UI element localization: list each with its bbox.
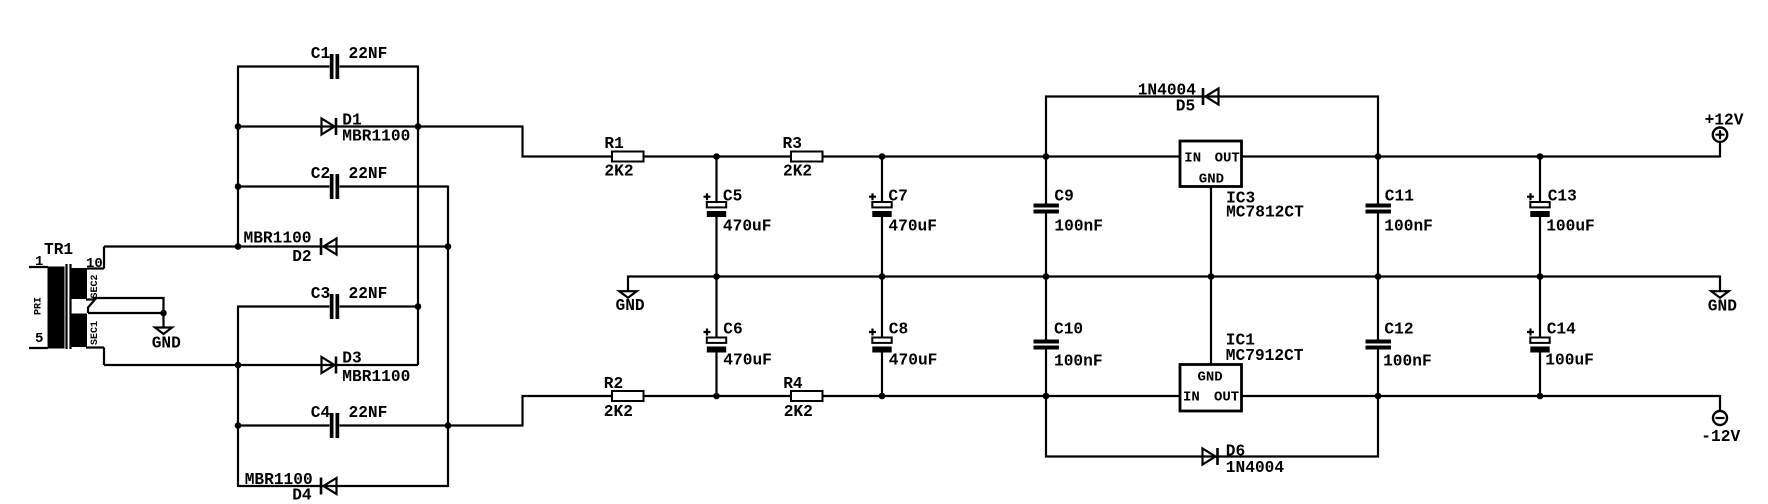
- ground symbol at transformer: [155, 328, 172, 335]
- svg-text:1: 1: [35, 254, 43, 270]
- junction C6 bottom: [713, 393, 720, 400]
- wire TR1 pin5 lead: [29, 347, 48, 349]
- junction C9 top: [1043, 153, 1050, 160]
- wire D5 right drop: [1377, 96, 1379, 157]
- svg-text:470uF: 470uF: [723, 352, 772, 370]
- wire GND rail: [628, 275, 1720, 277]
- junction C11 top: [1375, 153, 1382, 160]
- svg-text:R1: R1: [604, 135, 624, 153]
- svg-text:OUT: OUT: [1214, 390, 1239, 406]
- junction C4 left: [235, 422, 242, 429]
- wire D3 row: [104, 364, 418, 366]
- junction D1 left: [235, 123, 242, 130]
- svg-text:C3: C3: [311, 285, 330, 303]
- svg-text:MBR1100: MBR1100: [342, 368, 410, 386]
- wire transformer GND stub: [162, 313, 164, 328]
- wire +12V stub: [1719, 142, 1721, 158]
- svg-text:GND: GND: [1708, 298, 1737, 316]
- capacitor C1: [330, 54, 339, 79]
- svg-text:GND: GND: [616, 297, 645, 315]
- capacitor C9: [1034, 204, 1059, 214]
- diode D3: [322, 357, 337, 374]
- wire IC1 GND pin: [1210, 277, 1212, 365]
- wire C7 leads: [881, 157, 883, 277]
- svg-text:GND: GND: [152, 335, 181, 353]
- wire right GND stub: [1719, 276, 1721, 292]
- svg-text:C4: C4: [311, 404, 331, 422]
- wire bottom rail right: [1242, 395, 1721, 397]
- svg-text:100nF: 100nF: [1384, 218, 1433, 236]
- diode D1: [322, 118, 337, 135]
- wire D5 bypass row: [1045, 95, 1379, 97]
- svg-text:C11: C11: [1385, 188, 1414, 206]
- svg-text:470uF: 470uF: [723, 217, 772, 235]
- svg-text:C6: C6: [723, 320, 742, 338]
- ground symbol right: [1711, 291, 1728, 298]
- ground symbol mid: [619, 291, 636, 298]
- wire top rail left: [644, 155, 1181, 157]
- wire left bank vertical upper: [237, 66, 239, 247]
- capacitor C11: [1366, 204, 1391, 214]
- svg-text:100nF: 100nF: [1054, 353, 1103, 371]
- junction C13 top: [1537, 153, 1544, 160]
- wire left bank vertical lower: [237, 306, 239, 488]
- wire C5 leads: [715, 157, 717, 277]
- wire C1 top row: [238, 65, 418, 67]
- junction D3 left: [235, 362, 242, 369]
- svg-text:C9: C9: [1054, 188, 1073, 206]
- wire IC3 GND pin: [1210, 187, 1212, 277]
- svg-text:22NF: 22NF: [349, 404, 388, 422]
- svg-text:D3: D3: [342, 350, 361, 368]
- svg-text:C8: C8: [889, 320, 908, 338]
- svg-text:D4: D4: [292, 487, 312, 504]
- svg-text:GND: GND: [1198, 370, 1223, 386]
- svg-text:R2: R2: [604, 375, 623, 393]
- junction C12 bottom: [1375, 393, 1382, 400]
- diode D5: [1203, 88, 1219, 105]
- terminal +12V: [1713, 128, 1727, 142]
- junction transformer centre tap: [160, 310, 167, 317]
- svg-text:D2: D2: [292, 248, 311, 266]
- svg-text:C5: C5: [723, 188, 742, 206]
- wire D1 row: [238, 125, 523, 127]
- wire C13 leads: [1539, 157, 1541, 277]
- junction regulators gnd: [1208, 273, 1215, 280]
- junction C11 gnd: [1375, 273, 1382, 280]
- regulator IC1 box: [1180, 365, 1242, 412]
- svg-text:100nF: 100nF: [1383, 353, 1432, 371]
- wire SEC1 centre tap: [88, 312, 164, 314]
- capacitor C4: [330, 413, 339, 438]
- junction D1 right: [415, 123, 422, 130]
- junction C10 bottom: [1043, 393, 1050, 400]
- svg-text:5: 5: [35, 331, 43, 347]
- wire C4 row: [238, 424, 523, 426]
- capacitor C8: [869, 329, 892, 353]
- wire C11 leads: [1377, 157, 1379, 277]
- diode D4: [321, 478, 337, 495]
- svg-text:100uF: 100uF: [1545, 352, 1594, 370]
- resistor R4: [791, 391, 823, 401]
- svg-text:TR1: TR1: [44, 241, 73, 259]
- wire C9 leads: [1045, 157, 1047, 277]
- capacitor C10: [1034, 340, 1059, 350]
- wire C14 leads: [1539, 277, 1541, 397]
- transformer TR1 secondary winding SEC2: [72, 268, 88, 299]
- svg-text:10: 10: [86, 256, 103, 272]
- svg-text:IN: IN: [1184, 151, 1201, 167]
- junction C7 gnd: [879, 273, 886, 280]
- transformer TR1 secondary winding SEC1: [72, 314, 88, 348]
- svg-text:GND: GND: [1199, 172, 1224, 188]
- wire jog C4 to R2: [523, 396, 613, 427]
- svg-text:D5: D5: [1176, 98, 1195, 116]
- svg-text:D6: D6: [1226, 443, 1245, 461]
- wire SEC2 centre tap: [93, 298, 164, 313]
- svg-text:2K2: 2K2: [604, 403, 633, 421]
- svg-text:C10: C10: [1054, 320, 1083, 338]
- capacitor C14: [1527, 329, 1550, 353]
- wire D2 row from transformer: [104, 245, 448, 247]
- wire C2 row: [238, 185, 448, 187]
- regulator IC3 box: [1180, 141, 1242, 187]
- wire GND rail left stub: [627, 276, 629, 292]
- capacitor C6: [704, 329, 727, 353]
- junction C8 bottom: [879, 393, 886, 400]
- resistor R2: [612, 391, 644, 401]
- wire D6 bypass row: [1045, 455, 1379, 457]
- svg-text:100nF: 100nF: [1054, 218, 1103, 236]
- svg-text:-12V: -12V: [1701, 428, 1740, 446]
- svg-text:MC7812CT: MC7812CT: [1226, 204, 1304, 222]
- svg-text:MC7912CT: MC7912CT: [1226, 347, 1304, 365]
- svg-text:2K2: 2K2: [783, 163, 812, 181]
- junction C9 gnd: [1043, 273, 1050, 280]
- svg-text:SEC2: SEC2: [90, 274, 101, 298]
- junction C7 top: [879, 153, 886, 160]
- wire D5 left drop: [1045, 96, 1047, 157]
- capacitor C5: [704, 193, 727, 217]
- diode D6: [1203, 448, 1218, 465]
- wire right bank vertical x418: [417, 66, 419, 366]
- svg-text:2K2: 2K2: [784, 403, 813, 421]
- svg-text:22NF: 22NF: [349, 285, 388, 303]
- wire SEC2 tap squiggle: [86, 300, 95, 314]
- capacitor C2: [330, 174, 339, 199]
- transformer TR1 core: [67, 264, 71, 349]
- wire C3 row: [238, 305, 418, 307]
- wire SEC1 bottom lead: [86, 348, 104, 366]
- svg-text:22NF: 22NF: [349, 165, 388, 183]
- svg-text:MBR1100: MBR1100: [244, 230, 312, 248]
- svg-text:+12V: +12V: [1705, 111, 1744, 129]
- wire TR1 pin1 lead: [29, 266, 48, 268]
- resistor R3: [791, 152, 823, 162]
- diode D2: [321, 238, 337, 255]
- svg-text:SEC1: SEC1: [90, 321, 101, 345]
- junction C5 top: [713, 153, 720, 160]
- junction D2 right: [445, 243, 452, 250]
- svg-text:PRI: PRI: [34, 297, 45, 315]
- wire bottom rail left: [644, 395, 1181, 397]
- wire -12V stub: [1719, 395, 1721, 411]
- wire D4 row: [238, 485, 448, 487]
- terminal -12V: [1713, 411, 1727, 425]
- junction C3 right: [415, 303, 422, 310]
- junction D2 left: [235, 243, 242, 250]
- svg-text:C12: C12: [1384, 320, 1413, 338]
- svg-text:470uF: 470uF: [888, 217, 937, 235]
- wire C8 leads: [881, 277, 883, 397]
- capacitor C13: [1527, 193, 1550, 217]
- wire TR1 pin10 lead: [87, 247, 104, 269]
- svg-text:R3: R3: [783, 135, 802, 153]
- junction C5 gnd: [713, 273, 720, 280]
- junction C4 right: [445, 422, 452, 429]
- junction C14 bottom: [1537, 393, 1544, 400]
- svg-text:2K2: 2K2: [604, 163, 633, 181]
- svg-text:R4: R4: [783, 375, 803, 393]
- svg-text:100uF: 100uF: [1546, 217, 1595, 235]
- transformer TR1 primary winding: [48, 267, 65, 349]
- svg-text:MBR1100: MBR1100: [342, 128, 410, 146]
- svg-text:1N4004: 1N4004: [1226, 459, 1285, 477]
- wire top rail right: [1242, 155, 1721, 157]
- svg-text:IN: IN: [1183, 390, 1200, 406]
- wire bank vertical x448: [447, 186, 449, 488]
- svg-text:C14: C14: [1547, 320, 1576, 338]
- capacitor C12: [1366, 340, 1391, 350]
- wire D6 right drop: [1377, 396, 1379, 458]
- capacitor C7: [869, 193, 892, 217]
- wire jog D1 to R1: [523, 126, 613, 157]
- svg-text:C1: C1: [311, 45, 331, 63]
- wire C6 leads: [715, 277, 717, 397]
- wire D6 left drop: [1045, 396, 1047, 458]
- svg-text:470uF: 470uF: [889, 352, 938, 370]
- svg-text:22NF: 22NF: [349, 45, 388, 63]
- capacitor C3: [330, 294, 339, 319]
- wire C12 leads: [1377, 277, 1379, 397]
- svg-text:OUT: OUT: [1215, 151, 1240, 167]
- svg-text:C13: C13: [1548, 188, 1577, 206]
- wire C10 leads: [1045, 277, 1047, 397]
- svg-text:C7: C7: [888, 188, 907, 206]
- resistor R1: [612, 152, 644, 162]
- junction C2 left: [235, 183, 242, 190]
- svg-text:C2: C2: [311, 165, 330, 183]
- junction C13 gnd: [1537, 273, 1544, 280]
